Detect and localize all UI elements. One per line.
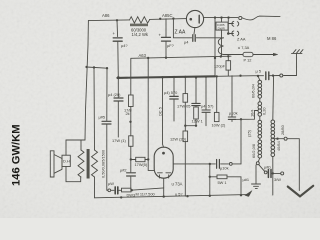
svg-text:12W (20): 12W (20) [170, 137, 187, 142]
svg-text:3/W: 3/W [274, 177, 281, 182]
capacitor C8 [170, 96, 178, 99]
resistor R2 0.085 DWR box [216, 22, 228, 30]
wire B+ vertical x118 [117, 20, 118, 78]
svg-text:Z AA: Z AA [237, 37, 246, 42]
wire x106.5 vertical [106, 68, 109, 190]
svg-text:A86: A86 [102, 13, 110, 18]
wire x215 vertical [214, 18, 216, 77]
svg-text:120pF: 120pF [214, 64, 226, 69]
coil L2 group2 [258, 102, 262, 116]
wire C14 to box [111, 189, 122, 191]
node x210 y164 [209, 163, 211, 165]
svg-text:60/6,0/4: 60/6,0/4 [251, 83, 256, 98]
antenna V symbol [288, 186, 313, 197]
capacitor C6 [127, 173, 136, 176]
switch S2 blade [259, 165, 265, 172]
svg-text:D.H: D.H [63, 159, 70, 164]
svg-text:µ10k: µ10k [220, 166, 229, 171]
node y125.7 x196 [195, 125, 197, 127]
tube U1 anode bar [198, 15, 200, 23]
node bus x240.5 [239, 75, 241, 77]
antenna earth symbol [292, 50, 304, 54]
node bus x212 [216, 75, 218, 77]
wire heater line y37.8 [173, 19, 223, 38]
wire L4-L5 link [272, 144, 274, 147]
svg-text:A85C: A85C [162, 13, 172, 18]
svg-text:u 73A: u 73A [172, 181, 183, 186]
svg-text:16/4: 16/4 [250, 109, 255, 117]
contact antenna [280, 74, 283, 77]
resistor R4 box [129, 95, 134, 107]
wire x174 vertical [173, 77, 175, 121]
wire R3 leads [227, 56, 229, 75]
switch S1 contact [239, 16, 242, 19]
wire x210 down [209, 164, 211, 196]
wire U1 bottom stub [193, 28, 196, 34]
wire speaker loop top [66, 140, 85, 155]
transformer T1 core [87, 149, 90, 179]
node bus x118 [117, 76, 120, 79]
node y58 x215 [214, 57, 216, 59]
svg-text:µW: µW [108, 181, 114, 186]
svg-text:5W 1: 5W 1 [218, 180, 227, 185]
tube U2 output envelope [154, 147, 173, 178]
node bus bottom x165 [163, 195, 165, 197]
wire L3-L3b link [259, 138, 261, 140]
wire U2 anode right [173, 163, 228, 165]
svg-text:40/84: 40/84 [276, 140, 281, 151]
svg-text:u 7,3A: u 7,3A [238, 45, 250, 50]
capacitor C3 series antenna [266, 72, 269, 80]
wire x216.7 vertical [216, 76, 218, 112]
tube U1 cathode dot [190, 18, 193, 21]
node y119 x241 [240, 118, 242, 120]
svg-text:P 12: P 12 [244, 58, 252, 63]
resistor R8 box [183, 94, 188, 103]
wire box right to connector [228, 24, 233, 34]
wire C13 right [272, 172, 280, 174]
wire fuse leads [237, 54, 274, 56]
wire top rail left segment [88, 19, 186, 21]
resistor R9 box [183, 131, 188, 142]
switch S2 contact a [256, 162, 259, 165]
svg-text:µ4?: µ4? [121, 43, 128, 48]
svg-text:µ#1: µ#1 [243, 177, 250, 182]
svg-text:28/80: 28/80 [280, 124, 285, 135]
node L5 row [272, 172, 274, 174]
node DW3 right [131, 189, 133, 191]
node x210 y177 [209, 176, 211, 178]
heater coil big arcs [218, 38, 223, 55]
wire left vertical x84 [85, 21, 88, 140]
wire x228.5 to contact [227, 18, 229, 34]
svg-text:µ#0: µ#0 [264, 165, 271, 170]
wire arcs to fuse line [224, 54, 237, 56]
resistor R6 box horizontal [136, 157, 145, 161]
svg-text:17W (1): 17W (1) [112, 138, 127, 143]
contact y138.7 [284, 137, 287, 140]
wire L3b to switch [258, 158, 260, 162]
svg-text:10W (2): 10W (2) [212, 123, 227, 128]
svg-text:0,20: 0,20 [262, 107, 267, 115]
wire L5 bottom [272, 157, 274, 196]
svg-text:17W 05: 17W 05 [177, 104, 190, 109]
svg-text:(25): (25) [247, 129, 252, 137]
capacitor C9 [192, 103, 200, 105]
capacitor C11 [228, 117, 235, 119]
svg-text:DC 5: DC 5 [158, 107, 163, 116]
node y68.3 x94 [93, 66, 95, 68]
wire cap to contact [269, 75, 280, 77]
node bus x162 [161, 76, 163, 78]
wire R12 right [227, 177, 241, 195]
resistor R1 60/3000 [130, 17, 150, 23]
resistor R5 box vertical [129, 136, 133, 147]
node y68.3 x84 [85, 66, 87, 68]
svg-text:12W 1: 12W 1 [192, 119, 203, 124]
node bus bottom x188 [186, 195, 188, 197]
wire T1 secondary bottom [94, 177, 96, 198]
node A85C right [172, 17, 174, 19]
node x131 y159.5 [130, 158, 132, 160]
resistor R10 box [194, 107, 199, 119]
wire x119 vertical [117, 78, 119, 137]
svg-text:0,50/0,085/1500: 0,50/0,085/1500 [101, 149, 106, 178]
node heater a [227, 32, 230, 35]
svg-text:µ#2: µ#2 [120, 168, 127, 173]
switch S1 blade [242, 16, 280, 20]
connector arcs a [232, 21, 239, 26]
capacitor C12 on anode line [217, 160, 220, 169]
wire x241 down [240, 119, 242, 164]
wire R6 leads [131, 159, 148, 161]
svg-text:µ4) 570: µ4) 570 [164, 90, 178, 95]
svg-text:60/2,0/8: 60/2,0/8 [251, 144, 256, 158]
svg-text:146 GW/KM: 146 GW/KM [11, 124, 23, 186]
svg-text:A63: A63 [139, 53, 147, 58]
node coil tap [276, 138, 278, 140]
node bus bottom x241 [240, 194, 242, 196]
svg-text:µ4 (20): µ4 (20) [108, 92, 121, 97]
arrow fuse right [274, 53, 278, 56]
wire contact to x241 [233, 163, 241, 165]
resistor R1 parallel bar [130, 24, 148, 27]
coil L1 group1 [258, 80, 262, 98]
capacitor C2 electrolytic x166 [165, 19, 167, 58]
wire x162 bus to tube [163, 77, 164, 147]
wire L1 top [258, 76, 260, 80]
node y58 x148 [147, 57, 149, 59]
wire x206 vertical [205, 77, 207, 126]
fuse F1 [243, 52, 253, 56]
capacitor C13 [268, 169, 271, 177]
wire speaker loop bottom [66, 167, 81, 182]
coil L4 group1 [271, 120, 275, 145]
wire heater rail right of U1 [204, 17, 238, 19]
node bus x185 [184, 76, 186, 78]
node y58 x221.5 [220, 55, 222, 57]
wire y119 to coil tap [232, 111, 258, 120]
node y58 x228 [227, 55, 229, 57]
wire x221.5 box stubs [221, 18, 223, 57]
svg-text:µ#5: µ#5 [99, 115, 106, 120]
node x228.5 top [227, 16, 229, 18]
svg-text:µF?: µF? [167, 43, 175, 48]
ground symbol G1 [252, 165, 261, 189]
capacitor C14 dark bars [115, 187, 118, 194]
wire rail y58 [131, 56, 231, 190]
wire L2-L3 link [259, 116, 261, 120]
node x185 y120 [184, 125, 186, 127]
svg-text:17W(5): 17W(5) [135, 162, 148, 167]
tube U1 heater bars [193, 35, 195, 42]
wire mid y125.7 [186, 119, 197, 126]
svg-text:µ 5: µ 5 [256, 69, 262, 74]
loudspeaker LS1 cone [50, 151, 62, 177]
capacitor C2 bars [162, 37, 171, 41]
contact anode line [229, 163, 232, 166]
loudspeaker LS1 coil box [62, 155, 70, 166]
capacitor C1 electrolytic [113, 38, 122, 41]
resistor R12 box 5W1 [217, 175, 227, 179]
capacitor C10 [202, 110, 210, 112]
coil L3 group4 [258, 140, 262, 158]
wire main bus right [215, 75, 264, 78]
node bus x205 [205, 76, 207, 78]
node bus bottom x203 [209, 195, 211, 197]
wire to R12 [210, 176, 217, 178]
node x148 y159.5 [147, 158, 149, 160]
tube U2 grid line [158, 173, 171, 178]
svg-text:Z AA: Z AA [175, 30, 187, 36]
wire x196 vertical [195, 77, 197, 107]
wire x148 vertical [148, 58, 154, 170]
transformer T1 primary zigzag [78, 150, 84, 177]
resistor R11 box [214, 112, 219, 121]
node x221.5 top [220, 16, 222, 18]
node bus bottom x121 [120, 196, 122, 198]
coil L5 group2 [271, 146, 275, 157]
svg-text:2k: 2k [126, 111, 130, 116]
wire coil tap to corner y138.7 [273, 139, 300, 191]
svg-text:M 11/7.500: M 11/7.500 [136, 192, 156, 197]
node C2 rail y58 [165, 57, 167, 59]
node y68.3 x107 [106, 67, 108, 69]
wire x232 vertical [231, 76, 233, 122]
wire rail y68.3 [87, 67, 107, 68]
arrow bus end [245, 191, 252, 197]
wire main bus thick [117, 76, 215, 78]
contact C13 right [281, 172, 284, 175]
node bus x174 [173, 76, 175, 78]
connector arcs b [232, 31, 239, 36]
coil L3 group3 [258, 120, 262, 138]
capacitor C5 [114, 98, 123, 101]
svg-text:M 86: M 86 [267, 36, 277, 41]
wire L1-L2 link [259, 98, 261, 102]
wire contact to antenna stem [284, 53, 297, 75]
wire DW3 row to cathode [131, 188, 164, 190]
tube U2 top pin [162, 152, 165, 155]
capacitor C4 [102, 121, 111, 124]
transformer T1 secondary zigzag [92, 150, 98, 177]
node top-left corner [116, 19, 118, 21]
wire bottom bus [95, 195, 248, 198]
node x130.5 y121.8 [129, 121, 131, 123]
node bus x196 [195, 76, 197, 78]
node bus x258 [257, 75, 259, 77]
svg-text:µ4) 57): µ4) 57) [201, 104, 214, 109]
svg-text:µ10k: µ10k [229, 111, 238, 116]
tube U1 rectifier circle [186, 10, 203, 27]
resistor R7 DW3 box [122, 188, 132, 192]
contact S2 b [264, 171, 267, 174]
wire U2 bottom [163, 178, 165, 196]
contact DW3 left [108, 189, 111, 192]
wire x274 from cap junction down [272, 76, 275, 120]
resistor R3 box 120pF [226, 61, 231, 70]
wire x94 to output transformer [93, 68, 96, 151]
node x215 top [214, 16, 216, 18]
wire x185 vertical [184, 77, 186, 196]
node A85C left [159, 18, 161, 20]
svg-text:1/4,2 Wk: 1/4,2 Wk [132, 32, 149, 37]
node bus x273 [272, 74, 274, 76]
